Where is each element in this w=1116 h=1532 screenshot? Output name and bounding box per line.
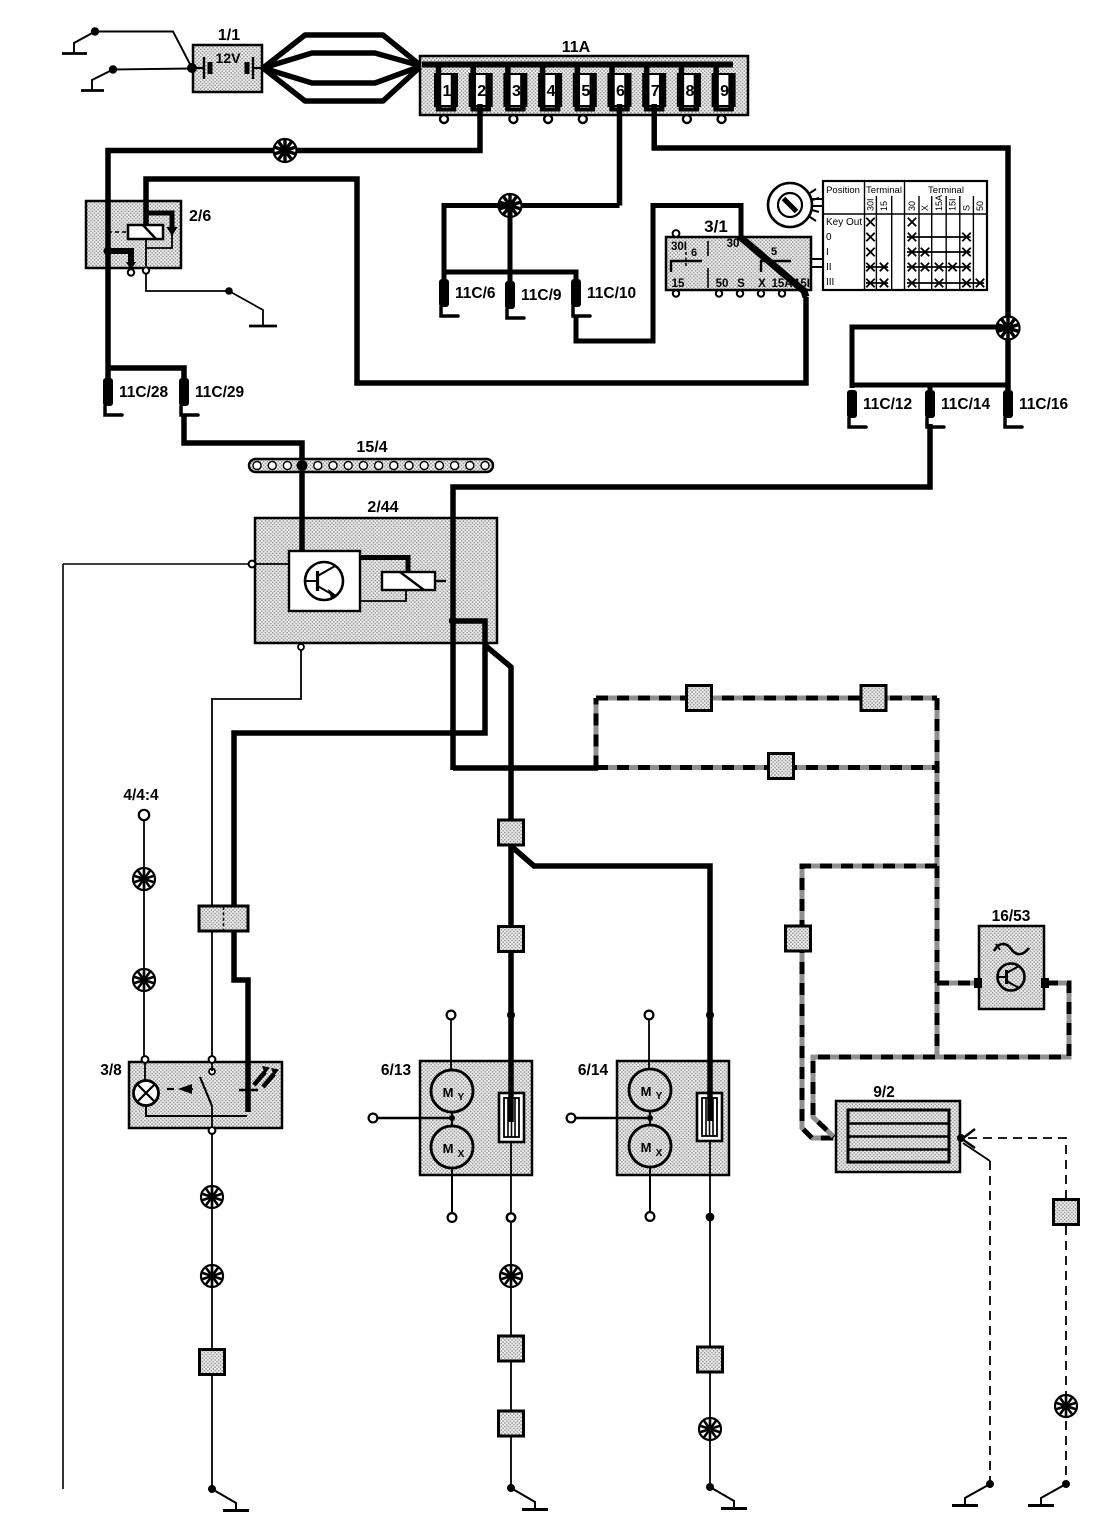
connector 11C/6 [439,279,449,307]
3/8 lamp wires [144,1063,146,1081]
splice junction right rail [997,317,1020,340]
inline connector 6/14 ground [698,1347,723,1372]
3/8 switch arm lower [211,1106,213,1129]
fuse 7 [643,62,665,111]
svg-text:X: X [458,1149,465,1160]
svg-text:6/14: 6/14 [578,1062,609,1079]
svg-text:M: M [641,1084,652,1099]
heated rear window 9/2 body [836,1101,960,1172]
relay 2/6 output branch [108,251,131,263]
svg-text:X: X [758,278,766,290]
svg-text:Key Out: Key Out [826,217,862,228]
3/8 bottom pin [209,1127,216,1134]
connector above mirror feeds [499,820,524,845]
splice junction on fuse2 feed [274,139,297,162]
svg-text:S: S [737,278,745,290]
connector 11C/28 [103,378,113,406]
6/13 top pin wire [450,1019,452,1070]
2/44 relay drive wire [360,558,408,573]
connector 4/4:4 pin [139,810,149,820]
wire 11C/29 to ground rail 15/4 [184,414,302,552]
svg-text:30: 30 [727,238,740,250]
connector 11C/16 [1003,390,1013,418]
6/14 heater element [697,1093,722,1141]
connector on upper dashed bus 2 [861,686,886,711]
svg-text:12V: 12V [216,50,242,66]
svg-text:15: 15 [672,278,685,290]
fuse 4 terminal [544,115,552,123]
svg-text:8: 8 [685,83,694,100]
connector on upper dashed bus 1 [687,686,712,711]
ignition key symbol [768,183,819,227]
svg-text:16/53: 16/53 [992,908,1031,925]
svg-text:15/4: 15/4 [356,439,387,456]
connector 11C/14 [925,390,935,418]
ground right column [1062,1480,1070,1488]
inline connector right column [1054,1200,1079,1225]
6/14 top pin wire [648,1019,650,1069]
svg-text:4/4:4: 4/4:4 [123,787,159,804]
6/13 heater element [499,1093,524,1142]
3/8 switch contact [209,1069,215,1075]
connector on 9/2 feed [786,926,811,951]
battery terminal blob [187,63,197,73]
wire splice down to 11C/9 [508,206,513,283]
wire ground G1 to battery [95,32,192,69]
2/44 coil return [360,590,406,601]
svg-text:4: 4 [547,83,556,100]
wire ground G2 to battery [113,69,192,70]
splice on 4/4:4 wire upper [133,868,155,890]
connector 11C/29 [179,378,189,406]
dashed wire 9/2 to connector [968,1138,1066,1198]
fuse 8 terminal [683,115,691,123]
svg-text:30I: 30I [671,241,687,253]
svg-text:15: 15 [879,201,889,211]
fuse 4 [539,62,561,111]
svg-text:3: 3 [512,83,521,100]
svg-text:11A: 11A [562,39,591,56]
6/14 motor link wire [649,1111,651,1125]
splice on right ground wire [1055,1395,1077,1417]
table contact marks [866,218,874,226]
6/13 left pin [369,1114,378,1123]
6/14 motor X [629,1125,671,1167]
ground rail 15/4 [249,459,493,472]
svg-text:11C/29: 11C/29 [195,384,245,401]
16/53 PWM squiggle [994,944,1029,954]
wire fuse 2 to node B1 (left feed) [108,104,480,380]
junction dot on 2/44 output [449,617,457,625]
2/44 transistor stage box [289,551,360,611]
svg-text:2: 2 [477,83,486,100]
6/14 motor X output pin [646,1212,655,1221]
2/44 relay coil [382,572,435,590]
svg-text:15A: 15A [934,195,944,211]
junction dot 6/13 feed [507,1011,515,1019]
svg-text:III: III [826,277,834,288]
svg-text:1: 1 [443,83,452,100]
switch 3/8 body [129,1062,282,1128]
fuse 5 terminal [579,115,587,123]
wire 11C/14 to unit 2/44 [453,424,930,770]
9/2 heater grid [848,1110,949,1162]
6/14 motor Y [629,1069,671,1111]
thin wire 2/44 to switch 3/8 [212,650,301,1057]
unit 2/44 body [255,518,497,643]
6/14 heater output wire [709,1141,711,1213]
3/1 to table link stubs [811,258,823,260]
6/14 top pin [645,1011,654,1020]
fuse 2 [470,62,492,111]
wire link to 11C/10 [444,272,576,280]
relay 2/6 branch junction [104,247,113,256]
6/14 heater feed overlay [707,1093,713,1121]
dashed bus upper horizontal [596,696,937,701]
splice junction 11C feed [499,194,522,217]
battery 1/1 symbol [193,57,263,79]
relay 16/53 body [979,926,1044,1009]
svg-text:X: X [656,1148,663,1159]
wire between connectors [508,845,514,928]
svg-text:M: M [641,1140,652,1155]
dashed bus right vertical [935,698,940,1057]
splice on 6/13 ground wire [500,1265,522,1287]
wire into 6/13 heater [508,951,514,1095]
6/13 motor link wire [451,1112,453,1126]
svg-text:9/2: 9/2 [873,1084,895,1101]
svg-text:Y: Y [458,1092,465,1103]
ground at relay 2/6 [229,291,263,325]
dashed bus left link [594,698,599,768]
6/13 top pin [447,1011,456,1020]
relay 2/6 coil wire from ignition [146,179,806,383]
svg-text:30: 30 [907,201,917,211]
6/13 heater output pin [507,1213,515,1221]
ground below 3/8 [208,1485,216,1493]
ground mid-right column [986,1480,994,1488]
3/8 switch pin [209,1056,216,1063]
2/44 output diagonal to mirrors [485,643,511,821]
relay 2/6 actuation dashed link [108,231,128,233]
2/44 bottom thin pin [298,644,304,650]
svg-text:15A: 15A [771,278,792,290]
wire harness braid battery to fuse box [263,35,420,101]
svg-text:9: 9 [720,83,729,100]
16/53 pin nubs [974,978,982,988]
splice on 3/8 ground wire 1 [201,1186,223,1208]
svg-text:50: 50 [975,201,985,211]
fuse 6 [609,62,631,111]
fuse 9 [713,62,735,111]
svg-text:3/1: 3/1 [704,217,728,236]
svg-text:6: 6 [691,247,697,259]
transistor symbol in 2/44 [305,562,343,600]
svg-text:M: M [443,1085,454,1100]
inline connector pair above 3/8 [199,906,248,931]
3/8 auto-return chevrons [254,1072,274,1087]
mirror unit 6/13 body [420,1061,532,1175]
dashed bus lower horizontal [596,765,937,770]
svg-text:Position: Position [826,185,860,196]
dashed wire to ground right [1065,1226,1067,1484]
svg-text:11C/12: 11C/12 [863,396,912,413]
ignition switch 3/1 body [666,237,811,290]
9/2 right terminal [957,1134,965,1142]
6/13 motor X [431,1126,473,1168]
relay 2/6 coil return wire [145,239,147,266]
svg-text:30I: 30I [866,198,876,211]
wire 6/13 heater to ground [510,1222,512,1486]
svg-text:2/6: 2/6 [189,208,211,225]
fuse 5 [574,62,596,111]
fuse 3 terminal [509,115,517,123]
wire splice to 11C/6 [444,206,510,281]
2/44 input wire inside [256,563,289,565]
3/8 direction arrow [181,1088,193,1090]
svg-text:11C/14: 11C/14 [941,396,991,413]
3/1 bottom terminal pins [673,290,679,296]
connector 11C/10 [571,279,581,307]
key to table link stubs [812,198,823,200]
mirror unit 6/14 body [617,1061,729,1175]
ground below 6/13 [507,1484,515,1492]
wire fuse 7 to right rail [654,104,1008,390]
relay 2/6 contact arm [146,213,172,228]
relay 2/6 pin terminals [128,269,134,275]
inline connector on 3/8 ground wire [200,1350,225,1375]
splice on 6/14 ground wire [699,1418,721,1440]
wire node to 11C splice [510,203,620,208]
svg-text:5: 5 [771,246,777,258]
wire branch to 11C/12 [852,327,1008,388]
svg-text:1/1: 1/1 [218,27,240,44]
ground G1 (top left) [62,27,99,53]
6/13 heater feed overlay [508,1093,514,1122]
3/8 illumination lamp [134,1081,159,1106]
svg-text:6: 6 [616,83,625,100]
wire 6/14 heater to ground [709,1221,711,1484]
svg-text:11C/28: 11C/28 [119,384,169,401]
mirror heater feed wire to 6/14 [511,846,710,1095]
svg-text:15I: 15I [948,198,958,211]
svg-text:I: I [826,247,829,258]
wire 3/8 to ground [211,1134,213,1486]
16/53 transistor symbol [998,964,1025,991]
inline connector 6/13 ground 1 [499,1336,524,1361]
svg-text:50: 50 [716,278,729,290]
3/1 right contact [761,261,791,272]
svg-text:2/44: 2/44 [367,499,398,516]
ground below 6/14 [706,1483,714,1491]
svg-text:X: X [920,205,930,211]
3/8 heavy contact cross [239,1089,258,1092]
3/8 switch arm [200,1077,212,1106]
fuse 3 [504,62,526,111]
fuse 1 [435,62,457,111]
wire junction above 11C/28 [108,368,184,380]
3/1 internal divider [707,241,709,256]
battery 1/1 body [193,45,262,92]
ignition switch internal feed diagonal 30 to 15I [739,236,806,297]
solid feed to dashed bus [453,765,598,771]
fuse box 11A body [420,56,748,115]
relay 2/6 coil [128,225,163,239]
ground node dot [225,287,233,295]
ignition position table [823,181,987,290]
connector on lower dashed bus [769,754,794,779]
connector 11C/9 [505,281,515,309]
relay 2/6 body [86,201,181,268]
6/13 heater output wire [510,1142,512,1213]
6/14 heater output pin [706,1213,715,1222]
fuse 1 terminal [440,115,448,123]
3/8 pin from 4/4:4 [142,1056,149,1063]
svg-text:Terminal: Terminal [866,185,902,196]
dashed wire 16/53 right loop [813,983,1069,1137]
svg-text:3/8: 3/8 [100,1062,122,1079]
diagonal from 9/2 terminal [963,1143,990,1161]
svg-text:5: 5 [581,83,590,100]
svg-text:11C/9: 11C/9 [521,287,562,304]
6/14 left pin [567,1114,576,1123]
rail connection blob [297,460,308,471]
inline connector 6/13 ground 2 [499,1411,524,1436]
svg-text:11C/6: 11C/6 [455,285,496,302]
6/13 motor Y [431,1070,473,1112]
svg-text:6/13: 6/13 [381,1062,412,1079]
svg-text:S: S [962,205,972,211]
fuse 9 terminal [718,115,726,123]
connector 11C/12 [847,390,857,418]
dashed branch to 9/2 heater [802,866,937,1138]
second connector on mirror feed [499,927,524,952]
2/44 output branch to 3/8 [234,621,485,1112]
svg-text:II: II [826,262,832,273]
svg-text:7: 7 [651,83,660,100]
splice on 3/8 ground wire 2 [201,1265,223,1287]
3/1 left contact [671,261,702,272]
relay 2/6 ground wire [146,273,229,291]
dashed wire to ground mid-right [989,1161,991,1484]
wire 11C/10 to ignition switch 30 [576,206,741,342]
svg-text:Terminal: Terminal [928,185,964,196]
fuse 8 [678,62,700,111]
splice on 4/4:4 wire lower [133,969,155,991]
svg-text:11C/10: 11C/10 [587,285,636,302]
left rail wire down [62,564,64,1489]
2/44 input pin [249,561,256,568]
ground G2 (left) [81,65,117,90]
svg-text:Y: Y [656,1091,663,1102]
svg-text:11C/16: 11C/16 [1019,396,1069,413]
svg-text:0: 0 [826,232,832,243]
6/13 left pin wire [377,1117,452,1120]
6/14 left pin wire [575,1117,650,1120]
thin wire 2/44 input from left rail [63,563,249,565]
wire fuse 6 down to node [617,104,623,206]
wire 4/4:4 to switch 3/8 [143,820,145,1057]
wire link 11C/12 11C/14 11C/16 [852,383,1008,388]
fuse box bus bar [422,62,733,68]
6/13 motor X output pin [448,1213,457,1222]
relay 2/6 contact to coil return [147,233,173,248]
junction dot 6/14 feed [706,1011,714,1019]
6/13 motor X output wire [451,1168,453,1213]
6/14 motor X output wire [649,1167,651,1212]
dashed link 16/53 left pin [937,981,975,986]
svg-text:15I: 15I [794,278,810,290]
svg-text:M: M [443,1141,454,1156]
